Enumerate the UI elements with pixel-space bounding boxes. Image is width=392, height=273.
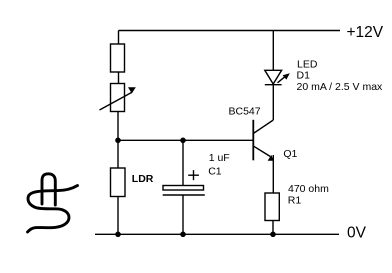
svg-text:+12V: +12V (347, 24, 384, 41)
wire resistor to potentiometer (118, 72, 120, 84)
node C1 bottom junction dot (180, 232, 186, 238)
transistor Q1 collector stroke (253, 120, 273, 134)
transistor Q1 emitter arrowhead (268, 155, 274, 161)
potentiometer wiper arrow (100, 87, 136, 110)
node C1 top junction dot (180, 138, 186, 144)
node R1 bottom junction dot (270, 232, 276, 238)
LED D1 triangle (265, 70, 282, 84)
svg-text:0V: 0V (347, 225, 367, 242)
wire rail to LED anode (272, 31, 274, 71)
wire node A to LDR (117, 140, 119, 168)
wire +12V top rail (119, 30, 341, 32)
wire C1 to 0V rail (182, 195, 184, 234)
svg-text:LED: LED (297, 58, 318, 70)
svg-text:LDR: LDR (132, 173, 154, 185)
transistor Q1 emitter stroke (253, 146, 270, 157)
wire rail to top resistor (118, 31, 120, 45)
wire potentiometer to node A (117, 112, 119, 141)
wire junction to capacitor C1 (182, 140, 184, 185)
signature mark (28, 174, 78, 232)
wire LDR to 0V rail (117, 197, 119, 235)
node A junction dot (115, 138, 121, 144)
svg-text:Q1: Q1 (283, 148, 297, 160)
wire node A to transistor base (118, 139, 253, 141)
svg-text:R1: R1 (288, 194, 302, 206)
svg-text:BC547: BC547 (229, 106, 261, 118)
wire R1 to 0V rail (272, 221, 274, 235)
node LDR bottom junction dot (115, 232, 121, 238)
svg-text:C1: C1 (208, 166, 222, 178)
capacitor C1 polarity plus sign (188, 170, 199, 180)
capacitor C1 bottom plate (163, 194, 205, 196)
potentiometer (variable resistor) body (111, 84, 125, 112)
capacitor C1 top plate (163, 186, 204, 191)
resistor R1 body (265, 193, 279, 221)
LED D1 emission arrow (278, 73, 290, 83)
transistor Q1 base bar (252, 120, 254, 161)
LED D1 cathode bar (265, 84, 282, 86)
wire emitter to R1 (272, 155, 274, 193)
resistor (fixed, divider top) (111, 44, 125, 72)
LDR body (111, 168, 126, 197)
wire 0V bottom rail (95, 233, 339, 235)
svg-text:D1: D1 (297, 70, 311, 82)
wire LED cathode to collector (272, 85, 274, 120)
svg-text:20 mA / 2.5 V max: 20 mA / 2.5 V max (297, 81, 384, 93)
svg-text:1 uF: 1 uF (209, 152, 230, 164)
